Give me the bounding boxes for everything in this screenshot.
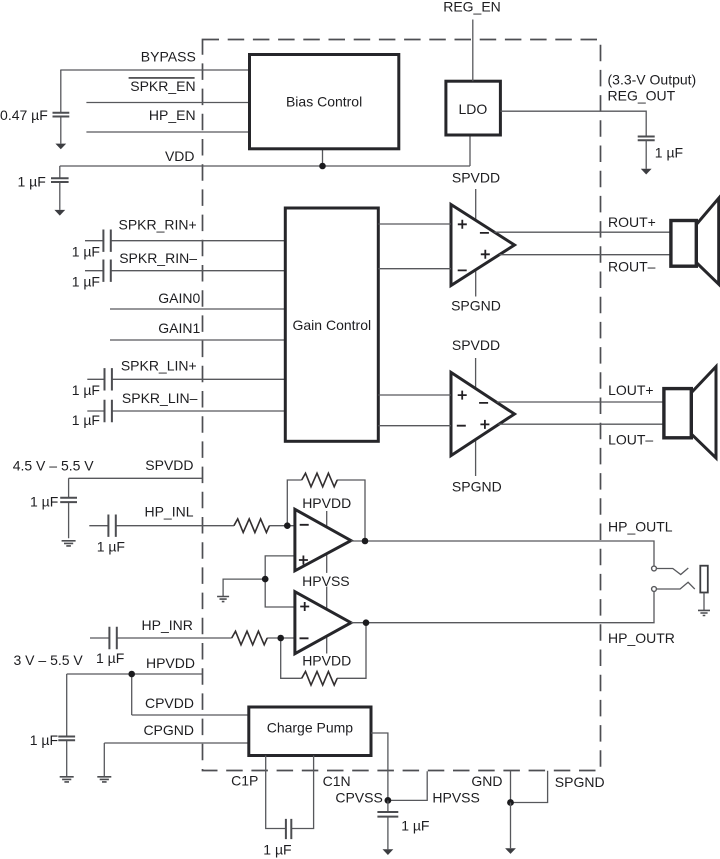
- jack switch lower: [656, 582, 694, 589]
- svg-text:REG_OUT: REG_OUT: [608, 87, 676, 103]
- speaker right: [671, 198, 719, 284]
- wire GAIN1: [110, 339, 285, 341]
- capacitor C hpinr 1uF (series): [109, 627, 116, 649]
- svg-text:1 µF: 1 µF: [96, 650, 124, 666]
- svg-text:SPKR_LIN–: SPKR_LIN–: [122, 390, 198, 406]
- wire VDD: [60, 165, 470, 167]
- wire CPGND: [104, 743, 249, 776]
- svg-text:GAIN0: GAIN0: [158, 290, 200, 306]
- resistor R feedback amp2: [302, 672, 338, 686]
- svg-text:SPGND: SPGND: [451, 298, 501, 314]
- wire HP_OUTR: [351, 591, 654, 622]
- IC boundary dashed box: [203, 40, 601, 771]
- svg-text:1 µF: 1 µF: [655, 144, 683, 160]
- svg-text:SPKR_RIN+: SPKR_RIN+: [118, 217, 196, 233]
- wire LOUT-: [498, 423, 664, 425]
- svg-text:SPGND: SPGND: [452, 479, 502, 495]
- svg-text:Charge Pump: Charge Pump: [267, 720, 354, 736]
- pin marks amp R: [458, 220, 490, 271]
- svg-text:SPKR_RIN–: SPKR_RIN–: [119, 250, 197, 266]
- block Bias Control U1: [250, 55, 399, 149]
- op-amp HP R (U hp2): [295, 592, 351, 654]
- capacitor C lin- 1uF (series): [105, 400, 112, 422]
- ground (hp ref, earth): [217, 597, 229, 602]
- jack sleeve: [700, 566, 708, 593]
- wire CPVSS: [371, 733, 388, 800]
- junction HPVDD: [128, 671, 135, 678]
- svg-text:CPVSS: CPVSS: [335, 789, 382, 805]
- block Charge Pump: [249, 707, 371, 756]
- capacitor C lin+ 1uF (series): [105, 368, 112, 390]
- headphone jack tip contact: [652, 566, 657, 571]
- wire HPVDD stub (amp2): [326, 587, 328, 654]
- wire HP_OUTL: [351, 541, 654, 566]
- svg-text:SPGND: SPGND: [555, 774, 605, 790]
- ground (spvdd cap, earth): [62, 541, 76, 546]
- jack switch upper: [656, 568, 688, 575]
- capacitor C cpvss 1uF: [377, 800, 398, 849]
- speaker left: [664, 367, 716, 458]
- junction hp ref: [262, 576, 269, 583]
- junction GND: [507, 799, 514, 806]
- wire sleeve to ground: [703, 593, 705, 611]
- capacitor C vdd 1uF: [51, 166, 69, 210]
- junction amp1 out: [362, 538, 369, 545]
- junction hpinl/fb: [284, 522, 291, 529]
- wire gain to amp L -: [378, 425, 451, 427]
- wire SPVDD rail: [69, 477, 203, 479]
- wire HP_INL: [89, 525, 295, 527]
- svg-text:LOUT–: LOUT–: [608, 431, 653, 447]
- wire C1P pin: [266, 756, 286, 829]
- wire SPKR_EN: [86, 102, 250, 104]
- wire HP_INR: [90, 637, 295, 639]
- svg-text:(3.3-V Output): (3.3-V Output): [608, 71, 697, 87]
- svg-text:C1P: C1P: [231, 773, 258, 789]
- svg-text:SPVDD: SPVDD: [452, 169, 500, 185]
- wire REG_EN: [472, 20, 474, 82]
- wire feedback amp2: [281, 623, 366, 679]
- svg-text:1 µF: 1 µF: [30, 732, 58, 748]
- svg-text:3 V – 5.5 V: 3 V – 5.5 V: [14, 652, 84, 668]
- wire BYPASS: [60, 69, 250, 71]
- wire gain to amp R -: [378, 268, 451, 270]
- svg-text:HP_OUTR: HP_OUTR: [608, 630, 675, 646]
- capacitor C rin- 1uF (series): [103, 260, 110, 282]
- ground (cpgnd, earth): [97, 777, 111, 782]
- resistor R hpinl (series): [234, 519, 270, 533]
- wire CPVDD: [132, 714, 249, 716]
- wire HP_EN: [86, 131, 250, 133]
- wire gain to amp L +: [378, 394, 451, 396]
- svg-text:ROUT+: ROUT+: [608, 214, 656, 230]
- wire GND pin: [510, 771, 512, 803]
- capacitor C bypass 0.47uF: [53, 70, 70, 144]
- svg-text:1 µF: 1 µF: [401, 817, 429, 833]
- wire SPGND pin bracket: [511, 771, 548, 803]
- svg-text:Bias Control: Bias Control: [286, 94, 362, 110]
- svg-text:SPVDD: SPVDD: [145, 457, 193, 473]
- wire HPVDD stub (amp1): [326, 511, 328, 573]
- wire SPKR_RIN+: [85, 240, 285, 242]
- svg-text:HP_OUTL: HP_OUTL: [608, 519, 673, 535]
- svg-text:ROUT–: ROUT–: [608, 259, 656, 275]
- junction hpinr/fb: [277, 635, 284, 642]
- svg-text:C1N: C1N: [323, 773, 351, 789]
- svg-text:1 µF: 1 µF: [263, 842, 291, 858]
- ground (gnd, arrow): [505, 848, 516, 854]
- op-amp speaker R: [451, 205, 515, 286]
- wire GAIN0: [110, 308, 285, 310]
- wire HPVDD to CPVDD link: [131, 674, 133, 715]
- op-amp speaker L: [451, 372, 515, 455]
- wire ROUT+: [494, 231, 671, 233]
- wire SPVDD supply stub (amp L): [475, 358, 477, 476]
- svg-text:4.5 V – 5.5 V: 4.5 V – 5.5 V: [13, 457, 95, 473]
- capacitor C hpvdd 1uF: [58, 674, 75, 776]
- svg-text:REG_EN: REG_EN: [443, 0, 501, 15]
- capacitor C regout 1uF: [638, 137, 655, 169]
- svg-text:SPVDD: SPVDD: [452, 337, 500, 353]
- op-amp HP L (U hp1): [295, 509, 351, 571]
- svg-text:CPGND: CPGND: [143, 722, 194, 738]
- ground (cpvss cap, arrow): [383, 849, 394, 855]
- svg-text:VDD: VDD: [165, 148, 195, 164]
- svg-text:1 µF: 1 µF: [72, 412, 100, 428]
- svg-text:HPVSS: HPVSS: [432, 789, 479, 805]
- junction amp2 out: [363, 619, 370, 626]
- wire + input amp1: [265, 556, 295, 607]
- svg-text:1 µF: 1 µF: [30, 493, 58, 509]
- capacitor C fly 1uF (between C1P/C1N): [286, 819, 291, 839]
- wire C1N pin: [291, 756, 313, 829]
- svg-text:0.47 µF: 0.47 µF: [0, 107, 48, 123]
- svg-text:HP_INL: HP_INL: [144, 504, 193, 520]
- svg-text:Gain Control: Gain Control: [293, 317, 372, 333]
- wire REG_OUT: [500, 111, 646, 136]
- svg-text:HPVSS: HPVSS: [302, 573, 349, 589]
- svg-text:1 µF: 1 µF: [72, 273, 100, 289]
- svg-text:HPVDD: HPVDD: [146, 655, 195, 671]
- wire GND to ground: [510, 803, 512, 849]
- headphone jack ring contact: [652, 587, 657, 592]
- wire HPVDD rail: [67, 673, 203, 675]
- capacitor C spvdd 1uF: [60, 478, 77, 538]
- ground (hpvdd cap, earth): [60, 777, 74, 782]
- pin marks amp L: [457, 391, 490, 429]
- wire feedback amp1: [287, 480, 365, 541]
- resistor R feedback amp1: [302, 473, 338, 487]
- wire SPKR_LIN-: [87, 410, 285, 412]
- junction CPVSS: [385, 797, 392, 804]
- svg-text:LDO: LDO: [459, 101, 488, 117]
- svg-text:LOUT+: LOUT+: [608, 382, 654, 398]
- ground (regout cap, arrow): [641, 169, 652, 175]
- svg-text:1 µF: 1 µF: [72, 243, 100, 259]
- svg-text:CPVDD: CPVDD: [145, 695, 194, 711]
- capacitor C hpinl 1uF (series): [108, 515, 115, 537]
- svg-text:1 µF: 1 µF: [97, 538, 125, 554]
- svg-text:BYPASS: BYPASS: [141, 49, 196, 65]
- svg-text:GND: GND: [471, 773, 502, 789]
- svg-text:HPVDD: HPVDD: [302, 652, 351, 668]
- svg-text:SPKR_EN: SPKR_EN: [130, 78, 195, 94]
- wire ROUT-: [499, 254, 671, 256]
- wire LDO bottom pin: [469, 135, 471, 166]
- wire SPKR_RIN-: [85, 270, 285, 272]
- wire HPVSS pin bracket: [388, 771, 427, 800]
- pin marks amp2: [300, 602, 310, 638]
- svg-text:GAIN1: GAIN1: [158, 320, 200, 336]
- wire to ground (hp ref): [223, 579, 265, 596]
- svg-text:1 µF: 1 µF: [18, 173, 46, 189]
- wire gain to amp R +: [378, 223, 451, 225]
- node SPKR_EN label (overline): [129, 78, 196, 94]
- pin marks amp1: [299, 525, 309, 565]
- ground (jack, earth): [698, 610, 710, 615]
- svg-text:1 µF: 1 µF: [72, 382, 100, 398]
- svg-text:HP_INR: HP_INR: [142, 617, 193, 633]
- junction VDD / bias pin: [319, 163, 326, 170]
- ground (vdd cap, arrow): [54, 210, 65, 216]
- block LDO: [446, 81, 501, 135]
- resistor R hpinr (series): [232, 631, 267, 645]
- wire SPKR_LIN+: [87, 378, 285, 380]
- svg-text:HPVDD: HPVDD: [302, 495, 351, 511]
- svg-text:SPKR_LIN+: SPKR_LIN+: [121, 358, 197, 374]
- svg-text:HP_EN: HP_EN: [149, 107, 196, 123]
- ground (bypass cap, arrow): [55, 144, 66, 150]
- wire SPVDD supply stub (amp R): [475, 189, 477, 297]
- block Gain Control: [285, 208, 378, 441]
- wire LOUT+: [497, 401, 665, 403]
- wire Bias Control bottom pin: [322, 149, 324, 166]
- capacitor C rin+ 1uF (series): [103, 230, 110, 252]
